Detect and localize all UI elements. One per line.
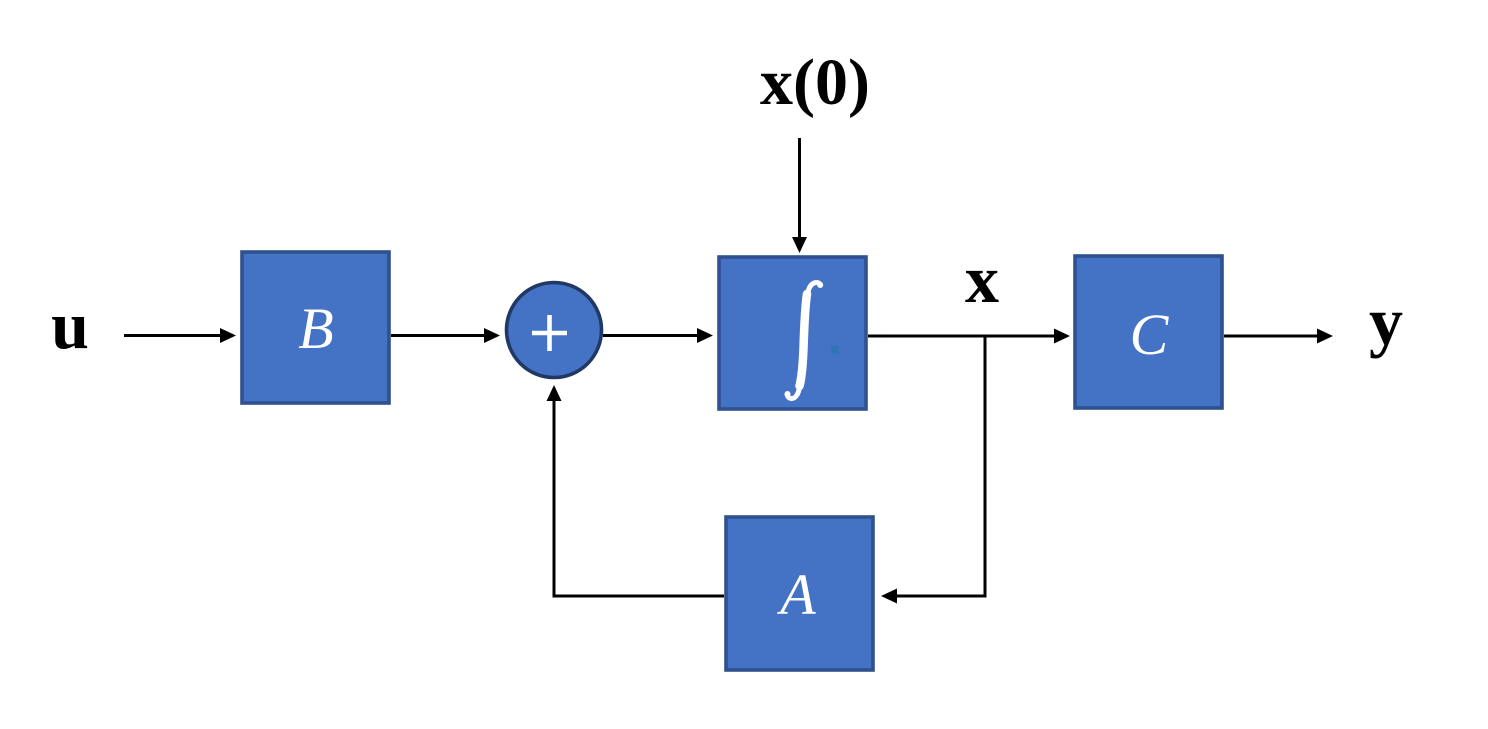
summing junction + [507, 283, 602, 378]
block A [726, 517, 873, 670]
wire A to summing junction: left then up with arrowhead [547, 385, 725, 596]
wire C to y with arrowhead [1224, 329, 1333, 344]
svg-text:B: B [298, 296, 333, 361]
block integrator [719, 257, 866, 409]
svg-text:C: C [1130, 302, 1170, 367]
block C [1075, 256, 1222, 408]
block B [242, 252, 389, 403]
wire integrator to C with junction branch and arrowhead [868, 329, 1070, 344]
wire feedback: branch down from x node [984, 335, 987, 598]
svg-text:x: x [965, 241, 999, 317]
wire summing junction to integrator with arrowhead [603, 328, 713, 343]
svg-text:u: u [51, 287, 89, 363]
svg-text:A: A [776, 562, 816, 627]
wire B to summing junction with arrowhead [391, 328, 500, 343]
svg-text:x(0): x(0) [760, 46, 870, 119]
wire u to B with arrowhead [124, 328, 236, 343]
wire x(0) to integrator with arrowhead [792, 138, 807, 253]
svg-text:y: y [1369, 283, 1403, 359]
wire feedback into A with arrowhead [881, 589, 987, 604]
